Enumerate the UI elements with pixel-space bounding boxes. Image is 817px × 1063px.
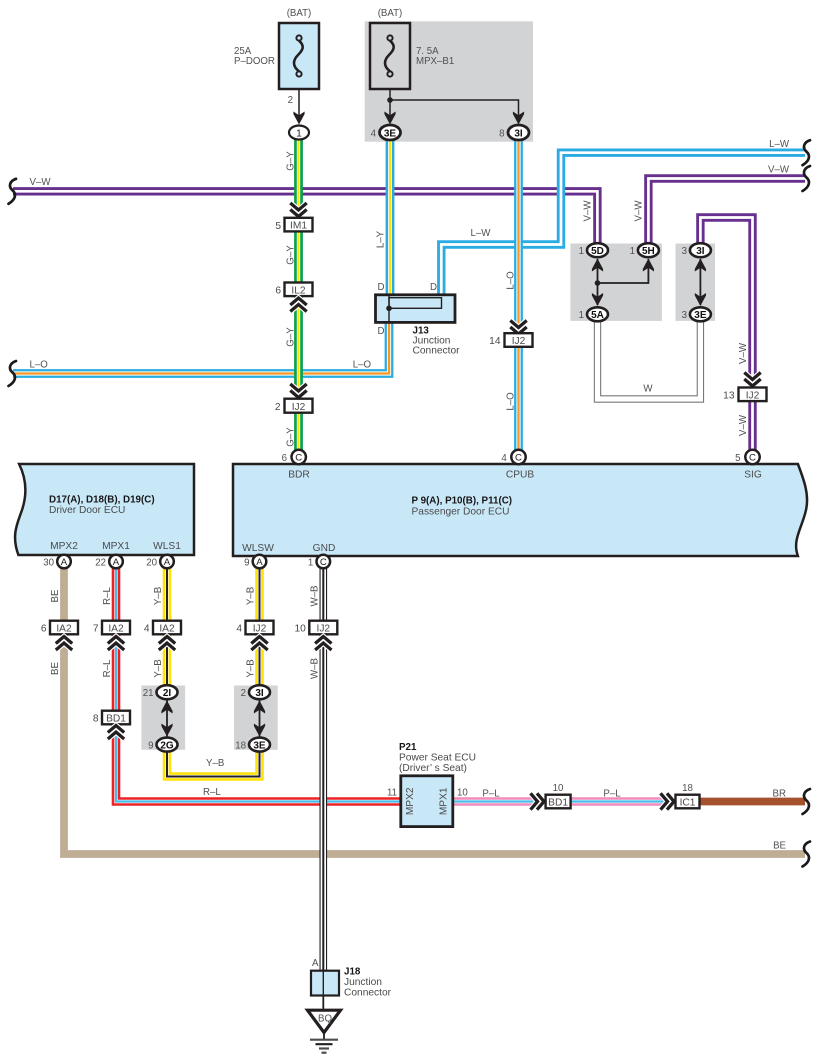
svg-text:IM1: IM1 bbox=[290, 221, 307, 232]
wire P-L from P21 to IC1 bbox=[453, 797, 676, 805]
svg-text:21: 21 bbox=[143, 688, 154, 699]
svg-text:10: 10 bbox=[294, 624, 306, 635]
svg-text:9: 9 bbox=[148, 740, 153, 751]
svg-text:6: 6 bbox=[41, 624, 47, 635]
pin 4 C CPUB bbox=[501, 450, 525, 464]
svg-text:IJ2: IJ2 bbox=[317, 624, 331, 635]
svg-text:A: A bbox=[256, 557, 263, 568]
svg-text:G–Y: G–Y bbox=[286, 151, 297, 171]
wire V-W from 3I to IJ2 to SIG bbox=[700, 218, 752, 453]
svg-text:2: 2 bbox=[288, 95, 293, 106]
svg-text:L–O: L–O bbox=[506, 392, 517, 411]
wire L-O from fuse 3I to CPUB bbox=[514, 135, 523, 452]
svg-text:MPX2: MPX2 bbox=[50, 541, 78, 552]
break squiggle L-W right bbox=[803, 140, 811, 165]
svg-text:MPX2: MPX2 bbox=[405, 787, 416, 815]
svg-text:3: 3 bbox=[682, 310, 687, 321]
svg-text:BR: BR bbox=[773, 789, 786, 800]
svg-text:V–W: V–W bbox=[768, 165, 790, 176]
wire L-Y from fuse 3E to J13 bbox=[386, 135, 395, 296]
connector 8 BD1 bbox=[93, 711, 130, 739]
wire G-Y from fuse 1 to BDR bbox=[294, 135, 303, 452]
svg-text:11: 11 bbox=[387, 788, 397, 799]
pin 30 A MPX2 bbox=[43, 555, 71, 569]
svg-text:6: 6 bbox=[275, 286, 281, 297]
svg-text:WLS1: WLS1 bbox=[153, 541, 181, 552]
svg-text:G–Y: G–Y bbox=[286, 245, 297, 265]
svg-text:1: 1 bbox=[296, 129, 302, 140]
gray junction block 5D/5H/5A bbox=[570, 244, 662, 321]
pin 22 A MPX1 bbox=[95, 555, 123, 569]
svg-text:G–Y: G–Y bbox=[286, 427, 297, 447]
svg-text:BE: BE bbox=[50, 662, 61, 675]
svg-text:G–Y: G–Y bbox=[286, 327, 297, 347]
junction connector J18 bbox=[311, 958, 392, 999]
svg-text:J18: J18 bbox=[344, 967, 361, 978]
junction ovals 3I 3E (upper) with arrows bbox=[682, 243, 711, 321]
svg-text:20: 20 bbox=[146, 558, 157, 569]
svg-text:IJ2: IJ2 bbox=[746, 390, 760, 401]
connector 13 IJ2 with down chevrons bbox=[723, 373, 766, 402]
svg-text:P–DOOR: P–DOOR bbox=[234, 56, 275, 67]
junction ovals 5D 5H 5A with arrows bbox=[579, 243, 659, 321]
svg-text:IJ2: IJ2 bbox=[253, 624, 267, 635]
svg-text:1: 1 bbox=[308, 558, 313, 569]
svg-text:R–L: R–L bbox=[102, 587, 113, 605]
svg-text:14: 14 bbox=[489, 336, 501, 347]
svg-text:L–Y: L–Y bbox=[376, 230, 387, 248]
svg-text:WLSW: WLSW bbox=[242, 543, 274, 554]
svg-text:2: 2 bbox=[275, 402, 281, 413]
break squiggle BE right bbox=[803, 842, 811, 867]
svg-text:IJ2: IJ2 bbox=[512, 336, 526, 347]
svg-text:C: C bbox=[295, 453, 302, 464]
svg-text:Y–B: Y–B bbox=[206, 758, 224, 769]
svg-text:Connector: Connector bbox=[344, 988, 392, 999]
break squiggle V-W left bbox=[9, 179, 17, 204]
svg-text:(BAT): (BAT) bbox=[287, 8, 312, 19]
wire R-L from MPX1 to P21 bbox=[116, 566, 402, 802]
wire fuse2 to 3E and 3I with junction bbox=[384, 89, 524, 125]
svg-text:A: A bbox=[312, 958, 319, 969]
svg-text:P 9(A), P10(B), P11(C): P 9(A), P10(B), P11(C) bbox=[412, 496, 513, 507]
svg-text:2I: 2I bbox=[163, 688, 172, 699]
svg-text:1: 1 bbox=[579, 310, 584, 321]
svg-text:W–B: W–B bbox=[310, 658, 321, 679]
svg-text:A: A bbox=[164, 557, 171, 568]
svg-text:Power Seat ECU: Power Seat ECU bbox=[399, 753, 476, 764]
break squiggle BR right bbox=[803, 789, 811, 814]
connector 4 IA2 bbox=[144, 621, 181, 650]
svg-text:3I: 3I bbox=[514, 129, 523, 140]
svg-text:C: C bbox=[320, 557, 327, 568]
svg-text:Y–B: Y–B bbox=[153, 587, 164, 605]
svg-text:Passenger Door ECU: Passenger Door ECU bbox=[412, 507, 510, 518]
wire V-W long horizontal to 5D bbox=[13, 191, 597, 245]
svg-text:C: C bbox=[749, 453, 756, 464]
svg-text:2G: 2G bbox=[160, 740, 174, 751]
svg-text:10: 10 bbox=[553, 783, 564, 794]
svg-text:8: 8 bbox=[93, 714, 99, 725]
svg-text:IC1: IC1 bbox=[680, 798, 696, 809]
connector IL2 with up chevrons bbox=[275, 283, 312, 312]
connector 4 IJ2 bbox=[236, 621, 273, 650]
svg-text:SIG: SIG bbox=[744, 470, 762, 481]
connector 18 IC1 with right chevrons bbox=[661, 783, 700, 810]
svg-text:Connector: Connector bbox=[413, 346, 461, 357]
svg-text:BE: BE bbox=[773, 841, 786, 852]
gray junction block 3I/3E (upper) bbox=[676, 244, 716, 321]
svg-text:6: 6 bbox=[282, 453, 287, 464]
svg-text:L–W: L–W bbox=[471, 228, 492, 239]
svg-text:L–O: L–O bbox=[30, 359, 49, 370]
svg-text:Junction: Junction bbox=[344, 977, 382, 988]
svg-text:P21: P21 bbox=[399, 742, 417, 753]
wire L-O left entry to J13 bbox=[13, 321, 389, 374]
svg-text:7: 7 bbox=[93, 624, 99, 635]
wire V-W right entry to 5H bbox=[648, 179, 805, 246]
gray relay-block background for fuse MPX-B1 bbox=[365, 21, 533, 141]
svg-text:D: D bbox=[378, 282, 385, 293]
junction connector J13 bbox=[376, 282, 461, 357]
svg-text:D: D bbox=[430, 282, 437, 293]
svg-text:3E: 3E bbox=[253, 740, 266, 751]
svg-text:22: 22 bbox=[95, 558, 106, 569]
svg-text:3: 3 bbox=[682, 246, 687, 257]
ground BQ bbox=[308, 996, 341, 1053]
svg-text:Driver Door ECU: Driver Door ECU bbox=[49, 505, 125, 516]
svg-text:8: 8 bbox=[499, 129, 504, 140]
svg-text:5A: 5A bbox=[591, 310, 604, 321]
connector 10 IJ2 bbox=[294, 621, 337, 650]
svg-text:2: 2 bbox=[241, 688, 246, 699]
svg-text:L–O: L–O bbox=[506, 271, 517, 290]
svg-text:MPX1: MPX1 bbox=[439, 787, 450, 815]
wire W loop between 5A and 3E bbox=[598, 318, 701, 399]
svg-text:V–W: V–W bbox=[738, 342, 749, 364]
svg-text:1: 1 bbox=[579, 246, 584, 257]
svg-text:4: 4 bbox=[144, 624, 150, 635]
svg-text:3E: 3E bbox=[384, 129, 397, 140]
svg-text:4: 4 bbox=[501, 453, 507, 464]
pin 1 C GND bbox=[308, 555, 330, 569]
svg-text:5: 5 bbox=[735, 453, 740, 464]
connector 6 IA2 bbox=[41, 621, 78, 650]
svg-text:BQ: BQ bbox=[318, 1014, 332, 1025]
svg-text:V–W: V–W bbox=[583, 200, 594, 222]
svg-text:Y–B: Y–B bbox=[246, 659, 257, 677]
break squiggle L-O left bbox=[9, 361, 17, 386]
junction ovals 3I 3E (lower) with arrows bbox=[235, 685, 270, 751]
svg-text:4: 4 bbox=[236, 624, 242, 635]
connector 7 IA2 bbox=[93, 621, 130, 650]
wire Y-B from WLSW to 3I bbox=[255, 566, 264, 686]
connector 14 IJ2 with down chevrons bbox=[489, 321, 532, 348]
svg-text:V–W: V–W bbox=[738, 414, 749, 436]
ECU box P21 Power Seat ECU bbox=[387, 742, 476, 827]
svg-text:5: 5 bbox=[275, 221, 281, 232]
pin 6 C BDR bbox=[282, 450, 306, 464]
svg-text:C: C bbox=[515, 453, 522, 464]
svg-text:10: 10 bbox=[457, 788, 468, 799]
connector 10 BD1 with right chevrons bbox=[531, 783, 571, 810]
wire fuse1 to connector 1 bbox=[288, 89, 305, 125]
wire BR from IC1 to right edge bbox=[700, 798, 805, 806]
svg-text:MPX–B1: MPX–B1 bbox=[416, 56, 454, 67]
junction ovals 2I 2G with arrows bbox=[143, 685, 178, 751]
ECU box D17/D18/D19 Driver Door ECU bbox=[15, 464, 194, 555]
svg-text:L–W: L–W bbox=[769, 139, 790, 150]
svg-text:9: 9 bbox=[244, 558, 249, 569]
svg-text:5D: 5D bbox=[591, 246, 604, 257]
wire Y-B loop 2G to 3E bbox=[167, 751, 260, 777]
gray junction block 3I/3E (lower) bbox=[234, 686, 278, 750]
svg-text:IA2: IA2 bbox=[108, 624, 124, 635]
svg-text:V–W: V–W bbox=[30, 177, 52, 188]
svg-text:3I: 3I bbox=[255, 688, 264, 699]
connector 2 IJ2 with down chevrons bbox=[275, 384, 313, 413]
pin 5 C SIG bbox=[735, 450, 760, 464]
svg-text:4: 4 bbox=[371, 129, 377, 140]
svg-text:A: A bbox=[61, 557, 68, 568]
svg-text:A: A bbox=[113, 557, 120, 568]
svg-text:IA2: IA2 bbox=[56, 624, 72, 635]
pin 9 A WLSW bbox=[244, 555, 266, 569]
wire W-B from GND to J18 bbox=[319, 566, 327, 972]
svg-text:18: 18 bbox=[235, 740, 246, 751]
svg-text:(Driver’ s Seat): (Driver’ s Seat) bbox=[399, 763, 467, 774]
svg-text:P–L: P–L bbox=[482, 789, 500, 800]
svg-text:(BAT): (BAT) bbox=[378, 8, 403, 19]
svg-text:1: 1 bbox=[630, 246, 635, 257]
svg-text:MPX1: MPX1 bbox=[102, 541, 130, 552]
svg-text:BD1: BD1 bbox=[548, 798, 568, 809]
svg-text:18: 18 bbox=[682, 783, 693, 794]
svg-text:Y–B: Y–B bbox=[246, 587, 257, 605]
svg-text:3I: 3I bbox=[696, 246, 705, 257]
svg-text:W–B: W–B bbox=[310, 586, 321, 607]
svg-text:L–O: L–O bbox=[353, 360, 372, 371]
svg-text:GND: GND bbox=[313, 543, 336, 554]
svg-text:V–W: V–W bbox=[634, 200, 645, 222]
svg-text:R–L: R–L bbox=[203, 787, 221, 798]
fuse 25A P-DOOR bbox=[234, 8, 319, 89]
svg-text:CPUB: CPUB bbox=[506, 470, 535, 481]
connector IM1 with down chevrons bbox=[275, 203, 312, 232]
svg-text:5H: 5H bbox=[642, 246, 655, 257]
svg-text:Y–B: Y–B bbox=[153, 659, 164, 677]
svg-text:BE: BE bbox=[50, 589, 61, 602]
svg-text:D: D bbox=[378, 326, 385, 337]
svg-text:D17(A), D18(B), D19(C): D17(A), D18(B), D19(C) bbox=[49, 495, 155, 506]
connector oval 1 bbox=[289, 126, 309, 140]
pin 20 A WLS1 bbox=[146, 555, 174, 569]
wire BE from MPX2 bbox=[64, 566, 805, 854]
wire Y-B from WLS1 to 2I bbox=[163, 566, 172, 686]
gray junction block 2I/2G (lower) bbox=[141, 686, 185, 750]
svg-text:30: 30 bbox=[43, 558, 54, 569]
svg-text:BDR: BDR bbox=[288, 470, 310, 481]
connector oval 3E (fuse) bbox=[371, 125, 401, 140]
ECU box P9/P10/P11 Passenger Door ECU bbox=[233, 464, 807, 556]
wire L-W right entry to J13 bbox=[441, 153, 805, 296]
break squiggle V-W right bbox=[803, 166, 811, 191]
svg-text:IJ2: IJ2 bbox=[292, 402, 306, 413]
svg-text:13: 13 bbox=[723, 390, 735, 401]
fuse 7.5A MPX-B1 bbox=[370, 8, 454, 89]
connector oval 3I (fuse) bbox=[499, 125, 529, 140]
svg-text:R–L: R–L bbox=[102, 659, 113, 677]
svg-text:W: W bbox=[643, 384, 653, 395]
svg-text:3E: 3E bbox=[694, 310, 707, 321]
svg-text:P–L: P–L bbox=[603, 789, 621, 800]
svg-text:IA2: IA2 bbox=[159, 624, 175, 635]
